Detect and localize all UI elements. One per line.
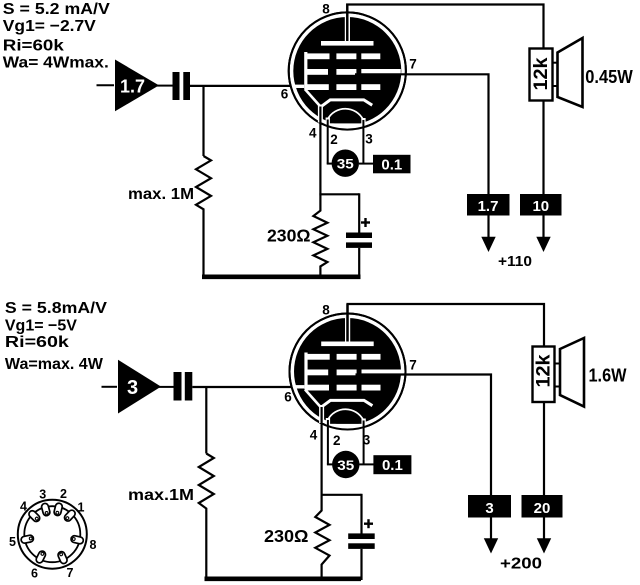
- socket pin 4: [28, 509, 42, 523]
- V1 cathode chevron: [321, 100, 372, 107]
- socket pin 5: [21, 535, 34, 544]
- resistor R4 230 ohm: [315, 495, 329, 579]
- svg-text:Vg1= −5V: Vg1= −5V: [5, 318, 77, 335]
- C2 plus sign: [361, 218, 370, 227]
- svg-text:35: 35: [337, 457, 354, 473]
- svg-text:Wa=max. 4W: Wa=max. 4W: [5, 356, 104, 373]
- svg-text:3: 3: [39, 488, 46, 502]
- svg-text:Wa= 4Wmax.: Wa= 4Wmax.: [3, 55, 109, 72]
- stage 1 input wire stub: [97, 84, 115, 86]
- V1 heater dome: [328, 109, 364, 120]
- V1 grid dashes row 1: [307, 53, 381, 59]
- V1 anode lead pin 8: [345, 4, 350, 44]
- V2 anode lead pin 8: [345, 304, 350, 344]
- svg-text:10: 10: [532, 198, 549, 215]
- current tag 20 stage 2: [522, 495, 563, 518]
- arrow under 3 tag: [484, 538, 498, 553]
- V1 cathode lead pin 4: [318, 105, 323, 195]
- svg-text:35: 35: [337, 156, 354, 172]
- svg-text:230Ω: 230Ω: [267, 225, 311, 245]
- V1 grid entry from pin 6: [293, 85, 304, 88]
- svg-text:+110: +110: [498, 253, 532, 270]
- wire pin2 to 35 node stage 2: [327, 463, 333, 465]
- current tag 3 stage 2: [468, 495, 511, 518]
- V2 grid dashes row 2: [305, 370, 401, 376]
- svg-text:12k: 12k: [531, 57, 552, 90]
- wire anode pin 7 to screen feed stage 2: [356, 375, 492, 539]
- C4 plus sign: [364, 519, 373, 528]
- wire triangle to coupling cap stage 2: [159, 386, 174, 388]
- arrow under 10 tag: [536, 237, 550, 252]
- V1 grid dashes row 3: [306, 84, 381, 90]
- svg-text:4: 4: [310, 428, 318, 443]
- svg-text:2: 2: [60, 487, 67, 501]
- svg-text:0.1: 0.1: [382, 457, 403, 474]
- coupling capacitor C1: [173, 72, 191, 100]
- wire anode pin 7 to screen feed: [355, 74, 489, 237]
- V2 anode plate bar: [321, 342, 374, 347]
- electrolytic capacitor C4: [348, 533, 375, 548]
- wire anode pin8 to output transformer: [347, 5, 543, 50]
- ground bus wire stage 2: [205, 576, 362, 581]
- svg-text:+200: +200: [500, 556, 542, 573]
- wire C2 to ground bus: [358, 248, 360, 278]
- V2 grid dashes row 3: [306, 385, 381, 391]
- V1 anode plate bar: [321, 41, 374, 46]
- value tag 0.1 stage 2: [373, 455, 411, 474]
- loudspeaker LS1: [558, 38, 583, 107]
- socket pin 2: [53, 503, 62, 517]
- arrow under 20 tag: [537, 538, 551, 553]
- svg-text:5: 5: [9, 535, 16, 549]
- arrow under 1.7 tag: [481, 237, 495, 252]
- V2 cathode chevron: [322, 400, 373, 407]
- svg-text:0.1: 0.1: [381, 157, 402, 174]
- svg-text:8: 8: [322, 2, 330, 17]
- svg-text:8: 8: [322, 303, 330, 318]
- current tag 1.7 stage 1: [467, 194, 510, 216]
- socket pin 3: [41, 503, 51, 517]
- wire pin2 to 35 node: [327, 163, 333, 165]
- svg-text:7: 7: [409, 358, 417, 373]
- V2 heater pin 2 lead: [327, 420, 329, 464]
- svg-text:6: 6: [284, 390, 292, 405]
- V1 heater pin 3 lead: [362, 120, 364, 164]
- svg-text:0.45W: 0.45W: [585, 67, 633, 87]
- wire C4 to ground bus stage 2: [360, 549, 362, 580]
- coupling capacitor C3: [174, 372, 193, 401]
- stage 2 input source triangle 3: [118, 360, 161, 414]
- tube socket outer circle: [18, 500, 87, 569]
- V2 heater pin 3 lead: [363, 421, 365, 465]
- wire grid node down to R3: [205, 387, 207, 454]
- svg-text:8: 8: [90, 538, 97, 552]
- speaker connector stubs stage 2: [555, 364, 561, 387]
- V2 grid dashes row 1: [307, 354, 381, 360]
- svg-text:1: 1: [78, 501, 85, 515]
- electrolytic capacitor C2: [346, 233, 372, 248]
- svg-text:max.1M: max.1M: [128, 487, 194, 504]
- wire 35 node to 0.1 tag: [359, 163, 374, 165]
- V1 grid rail: [304, 52, 307, 89]
- value tag 0.1 stage 1: [373, 155, 411, 174]
- svg-text:Ri=60k: Ri=60k: [5, 334, 69, 351]
- wire grid node down to R1: [202, 86, 204, 156]
- triode V1 envelope: [289, 12, 406, 133]
- stage 1 input source triangle 1.7: [115, 60, 159, 112]
- V1 grid dashes row 2: [305, 69, 401, 75]
- wire anode pin8 to output transformer stage 2: [348, 304, 545, 347]
- svg-text:20: 20: [534, 500, 551, 517]
- ground bus wire stage 1: [202, 274, 361, 279]
- V1 grid rail diagonal: [305, 89, 321, 107]
- heater voltage node 35: [332, 150, 359, 177]
- V2 grid rail: [304, 353, 307, 390]
- resistor R2 230 ohm: [313, 194, 327, 277]
- V2 grid entry from pin 6: [293, 385, 304, 388]
- current tag 10 stage 1: [520, 194, 562, 216]
- svg-text:2: 2: [333, 433, 341, 448]
- resistor R1 max.1M: [196, 156, 211, 277]
- svg-text:3: 3: [365, 132, 373, 147]
- svg-text:4: 4: [309, 126, 317, 141]
- output transformer primary 12k stage 1: [530, 49, 553, 101]
- svg-text:4: 4: [20, 500, 27, 514]
- heater voltage node 35 stage 2: [332, 451, 359, 478]
- svg-text:1.7: 1.7: [120, 77, 145, 97]
- triode V2 envelope: [290, 314, 406, 435]
- wire 35 node to 0.1 tag stage 2: [360, 463, 375, 465]
- wire junction down to C4: [360, 494, 362, 534]
- resistor R3 max.1M stage 2: [199, 454, 214, 580]
- svg-text:3: 3: [485, 500, 493, 517]
- wire 12k bottom to supply: [542, 101, 544, 238]
- svg-text:6: 6: [281, 87, 289, 102]
- socket pin 7: [57, 551, 68, 565]
- svg-text:S = 5.2 mA/V: S = 5.2 mA/V: [3, 1, 110, 18]
- svg-text:1.7: 1.7: [478, 198, 499, 215]
- wire triangle to coupling cap: [157, 85, 173, 87]
- tube socket inner circle: [24, 506, 80, 562]
- svg-text:230Ω: 230Ω: [264, 526, 309, 546]
- svg-text:7: 7: [67, 566, 74, 580]
- socket pin 8: [70, 535, 84, 544]
- svg-text:3: 3: [127, 377, 138, 399]
- wire cap to grid pin 6: [190, 85, 295, 87]
- wire cathode junction horizontal: [319, 193, 359, 195]
- speaker connector stubs stage 1: [553, 63, 559, 86]
- svg-text:Ri=60k: Ri=60k: [3, 38, 64, 55]
- V2 heater dome: [328, 409, 364, 420]
- wire cathode junction horizontal stage 2: [321, 494, 362, 496]
- socket pin 6: [35, 550, 47, 564]
- V1 heater pin 2 lead: [327, 120, 329, 164]
- svg-text:S = 5.8mA/V: S = 5.8mA/V: [5, 300, 107, 317]
- svg-text:2: 2: [330, 132, 338, 147]
- svg-text:Vg1= −2.7V: Vg1= −2.7V: [3, 18, 96, 35]
- svg-text:7: 7: [409, 57, 417, 72]
- wire 12k bottom to supply stage 2: [543, 402, 545, 539]
- output transformer primary 12k stage 2: [533, 347, 555, 403]
- svg-text:12k: 12k: [534, 354, 555, 387]
- svg-text:6: 6: [31, 567, 38, 581]
- loudspeaker LS2: [560, 338, 584, 407]
- wire junction down to C2: [358, 193, 360, 233]
- svg-text:max. 1M: max. 1M: [128, 186, 194, 203]
- svg-text:1.6W: 1.6W: [589, 366, 627, 386]
- socket pin 1: [63, 509, 76, 523]
- V2 cathode lead pin 4: [319, 405, 324, 495]
- V2 grid rail diagonal: [305, 390, 321, 408]
- stage 2 input wire stub: [102, 386, 118, 388]
- wire cap to grid pin 6 stage 2: [192, 386, 295, 388]
